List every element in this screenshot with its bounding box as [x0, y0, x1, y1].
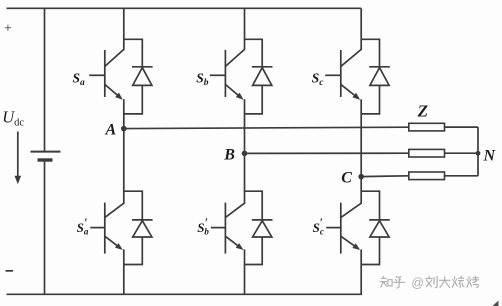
resistor Z phase C: [409, 172, 445, 180]
wire: leg C top (rail to collector): [360, 8, 362, 50]
diode Da (upper freewheel): [132, 67, 153, 86]
svg-text:C: C: [341, 169, 352, 186]
svg-text:+: +: [4, 22, 12, 37]
wire: upper diode anode lead: [361, 85, 379, 114]
wire: upper emitter lead to node B: [244, 99, 246, 153]
wire: upper diode branch: [361, 39, 379, 67]
wire: lower diode branch: [361, 191, 379, 220]
wire: lower diode anode lead: [245, 237, 263, 265]
transistor Sc (upper switch): [325, 49, 361, 99]
svg-text:Z: Z: [417, 101, 428, 120]
wire: negative DC rail (bottom bus): [7, 293, 363, 295]
wire: load C to neutral bus: [445, 175, 479, 177]
watermark: Zhihu @liudashaokao (gray): [380, 276, 478, 290]
wire: lower diode branch: [124, 191, 143, 220]
wire: lower diode branch: [245, 191, 263, 220]
transistor Sc' (lower switch): [326, 203, 361, 254]
wire: upper diode anode lead: [245, 85, 263, 114]
corner scan mark: [493, 301, 499, 306]
diode Dc' (lower freewheel): [369, 220, 390, 237]
svg-text:Udc: Udc: [2, 107, 24, 128]
diode Db (upper freewheel): [252, 67, 273, 86]
svg-text:Sb: Sb: [196, 70, 209, 88]
node N (neutral junction dot): [476, 151, 481, 156]
wire: leg A top (rail to collector): [123, 8, 125, 50]
resistor Z phase A: [409, 123, 445, 131]
svg-text:A: A: [105, 122, 117, 139]
transistor Sb' (lower switch): [211, 203, 245, 254]
wire: lower emitter lead to negative rail: [244, 249, 246, 294]
node B (junction dot): [242, 151, 248, 157]
wire: node B to lower collector: [244, 153, 246, 204]
wire: neutral bus vertical: [477, 127, 479, 176]
svg-text:Sa: Sa: [73, 70, 86, 88]
wire: upper emitter lead to node C: [360, 99, 362, 176]
wire: phase A line to load: [124, 127, 409, 128]
wire: DC source bottom lead: [44, 162, 46, 295]
svg-text:Sc′: Sc′: [313, 217, 324, 236]
wire: load B to neutral bus: [445, 152, 479, 154]
wire: load A to neutral bus: [445, 126, 479, 128]
transistor Sa' (lower switch): [90, 203, 124, 254]
svg-text:Sb′: Sb′: [197, 217, 209, 236]
resistor Z phase B: [409, 149, 445, 157]
transistor Sb (upper switch): [210, 49, 245, 99]
wire: phase C line to load: [361, 175, 409, 178]
wire: DC source top lead: [44, 8, 46, 151]
wire: node C to lower collector: [360, 177, 362, 204]
wire: upper emitter lead to node A: [123, 99, 125, 128]
svg-text:Sc: Sc: [312, 70, 325, 88]
wire: upper diode branch: [245, 39, 263, 67]
svg-text:Sa′: Sa′: [77, 217, 89, 236]
wire: positive DC rail (top bus): [7, 7, 362, 9]
wire: upper diode branch: [124, 39, 143, 67]
arrow: Udc voltage direction: [15, 132, 22, 185]
wire: phase B line to load: [245, 152, 409, 154]
svg-text:B: B: [223, 147, 235, 164]
wire: lower diode anode lead: [124, 237, 143, 265]
wire: lower emitter lead to negative rail: [123, 249, 125, 294]
svg-text:N: N: [483, 148, 497, 165]
svg-text:@: @: [411, 276, 424, 290]
transistor Sa (upper switch): [89, 49, 124, 99]
diode Da' (lower freewheel): [132, 220, 153, 237]
diode Dc (upper freewheel): [369, 67, 390, 86]
battery Udc (DC source): [31, 152, 61, 160]
wire: lower diode anode lead: [361, 237, 379, 265]
wire: node A to lower collector: [123, 129, 125, 204]
diode Db' (lower freewheel): [252, 220, 273, 237]
wire: leg B top (rail to collector): [244, 8, 246, 50]
node A (junction dot): [121, 126, 127, 132]
wire: upper diode anode lead: [124, 85, 143, 114]
wire: lower emitter lead to negative rail: [360, 249, 362, 294]
node C (junction dot): [358, 174, 364, 180]
label - (negative terminal): [6, 270, 14, 272]
